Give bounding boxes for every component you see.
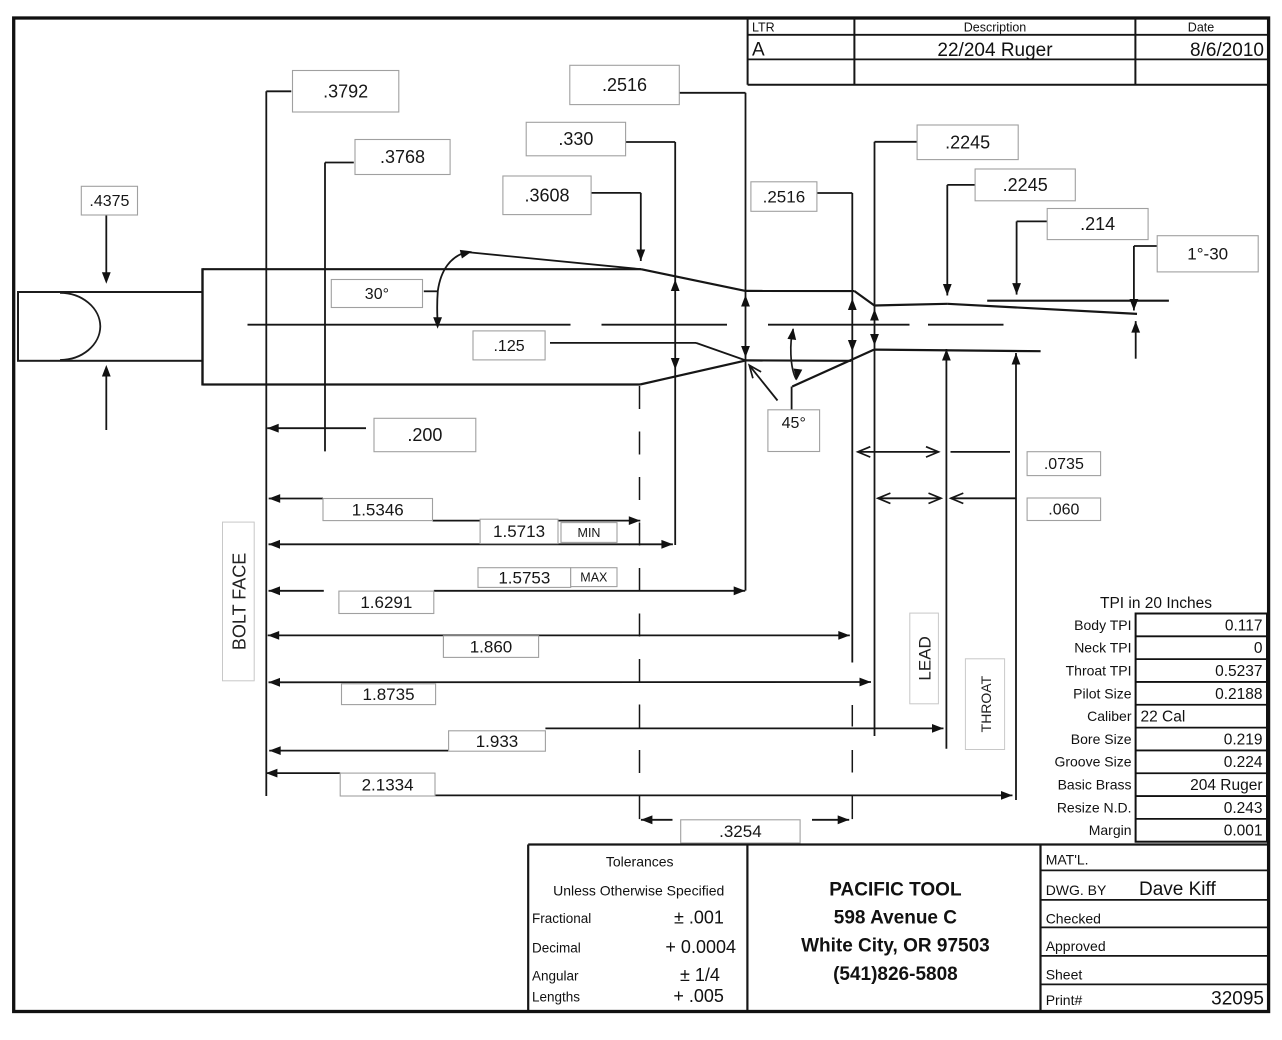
svg-text:204 Ruger: 204 Ruger	[1190, 777, 1262, 794]
svg-text:0.219: 0.219	[1224, 731, 1263, 748]
svg-text:Sheet: Sheet	[1046, 967, 1083, 983]
svg-text:45°: 45°	[782, 415, 806, 432]
svg-text:LEAD: LEAD	[916, 636, 935, 680]
svg-text:MIN: MIN	[578, 526, 601, 540]
svg-text:TPI in 20 Inches: TPI in 20 Inches	[1100, 595, 1212, 612]
svg-text:1.860: 1.860	[470, 637, 513, 656]
svg-text:.2245: .2245	[1003, 175, 1048, 195]
svg-text:22/204 Ruger: 22/204 Ruger	[937, 40, 1053, 61]
svg-text:.2516: .2516	[763, 187, 806, 206]
svg-text:A: A	[752, 40, 765, 61]
svg-text:MAT'L.: MAT'L.	[1046, 852, 1089, 868]
svg-text:Angular: Angular	[532, 969, 579, 984]
svg-text:.3254: .3254	[719, 822, 762, 841]
svg-text:Date: Date	[1188, 21, 1214, 35]
svg-text:.330: .330	[558, 129, 593, 149]
svg-text:THROAT: THROAT	[978, 675, 994, 732]
svg-text:Lengths: Lengths	[532, 990, 580, 1005]
svg-text:+ .005: + .005	[673, 986, 724, 1006]
svg-text:32095: 32095	[1211, 989, 1264, 1010]
svg-text:Approved: Approved	[1046, 938, 1106, 954]
svg-text:1.5753: 1.5753	[498, 568, 550, 587]
svg-text:30°: 30°	[365, 286, 389, 303]
svg-text:Checked: Checked	[1046, 911, 1101, 927]
svg-text:Fractional: Fractional	[532, 911, 591, 926]
svg-text:Pilot Size: Pilot Size	[1073, 685, 1132, 701]
svg-text:.4375: .4375	[89, 193, 129, 210]
svg-text:± 1/4: ± 1/4	[680, 965, 720, 985]
svg-text:1.933: 1.933	[476, 732, 519, 751]
svg-text:0: 0	[1254, 640, 1263, 657]
svg-text:.3792: .3792	[323, 81, 368, 101]
svg-text:Margin: Margin	[1089, 822, 1132, 838]
svg-text:0.2188: 0.2188	[1215, 686, 1262, 703]
svg-text:0.243: 0.243	[1224, 800, 1263, 817]
svg-text:Resize N.D.: Resize N.D.	[1057, 799, 1132, 815]
svg-text:Unless Otherwise Specified: Unless Otherwise Specified	[553, 883, 724, 899]
svg-text:Caliber: Caliber	[1087, 708, 1132, 724]
svg-text:Tolerances: Tolerances	[606, 854, 674, 870]
svg-text:.125: .125	[493, 338, 524, 355]
svg-text:Print#: Print#	[1046, 992, 1083, 1008]
svg-text:+ 0.0004: + 0.0004	[665, 937, 736, 957]
svg-text:0.5237: 0.5237	[1215, 663, 1262, 680]
svg-text:0.117: 0.117	[1225, 617, 1263, 634]
svg-text:DWG. BY: DWG. BY	[1046, 882, 1107, 898]
svg-text:1.8735: 1.8735	[363, 685, 415, 704]
svg-text:Bore Size: Bore Size	[1071, 731, 1132, 747]
svg-text:0.224: 0.224	[1224, 754, 1263, 771]
svg-text:.200: .200	[407, 425, 442, 445]
svg-text:Description: Description	[964, 21, 1027, 35]
svg-text:1°-30: 1°-30	[1187, 245, 1228, 264]
svg-text:8/6/2010: 8/6/2010	[1190, 40, 1264, 61]
svg-text:1.5346: 1.5346	[352, 500, 404, 519]
svg-text:Neck TPI: Neck TPI	[1074, 640, 1131, 656]
svg-text:Groove Size: Groove Size	[1054, 754, 1131, 770]
svg-text:(541)826-5808: (541)826-5808	[833, 964, 958, 985]
svg-text:PACIFIC TOOL: PACIFIC TOOL	[829, 879, 962, 900]
svg-text:± .001: ± .001	[674, 908, 724, 928]
svg-text:Decimal: Decimal	[532, 941, 581, 956]
svg-text:Body TPI: Body TPI	[1074, 617, 1131, 633]
svg-text:Throat TPI: Throat TPI	[1066, 662, 1132, 678]
svg-text:1.6291: 1.6291	[360, 593, 412, 612]
svg-text:.3768: .3768	[380, 147, 425, 167]
svg-text:.0735: .0735	[1044, 456, 1084, 473]
svg-text:Dave Kiff: Dave Kiff	[1139, 879, 1216, 900]
svg-text:Basic Brass: Basic Brass	[1058, 777, 1132, 793]
svg-text:.2516: .2516	[602, 75, 647, 95]
svg-text:.060: .060	[1048, 502, 1079, 519]
svg-text:22 Cal: 22 Cal	[1141, 709, 1186, 726]
svg-text:MAX: MAX	[580, 570, 608, 584]
svg-text:1.5713: 1.5713	[493, 522, 545, 541]
svg-text:0.001: 0.001	[1224, 823, 1263, 840]
svg-text:598 Avenue C: 598 Avenue C	[834, 907, 957, 928]
svg-text:2.1334: 2.1334	[362, 775, 414, 794]
svg-text:LTR: LTR	[752, 21, 775, 35]
svg-text:.3608: .3608	[524, 185, 569, 205]
svg-text:BOLT FACE: BOLT FACE	[229, 553, 249, 650]
svg-text:.214: .214	[1080, 214, 1115, 234]
svg-text:White City, OR 97503: White City, OR 97503	[801, 936, 990, 957]
svg-text:.2245: .2245	[945, 132, 990, 152]
